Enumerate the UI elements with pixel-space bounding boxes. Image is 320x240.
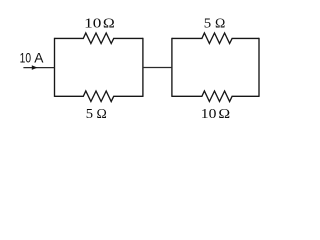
- svg-text:Ω: Ω: [103, 17, 115, 32]
- resistor R2 (5 ohm, bottom of left box): [55, 91, 143, 102]
- svg-text:Ω: Ω: [218, 107, 230, 122]
- svg-text:5: 5: [86, 107, 93, 122]
- resistor R4 (10 ohm, bottom of right box): [172, 91, 259, 102]
- arrowhead of current source: [32, 65, 38, 70]
- wire: right box left vertical: [171, 38, 173, 97]
- wire: left box right vertical: [142, 38, 144, 97]
- svg-text:Ω: Ω: [215, 17, 225, 32]
- resistor R3 (5 ohm, top of right box): [172, 33, 259, 44]
- wire: right box right vertical: [258, 38, 260, 97]
- svg-text:A: A: [34, 49, 44, 65]
- wire: input lead with current arrow: [23, 67, 54, 69]
- wire: left box left vertical: [54, 38, 56, 97]
- svg-text:10: 10: [84, 17, 101, 32]
- svg-text:10: 10: [20, 49, 32, 65]
- svg-text:10: 10: [201, 107, 217, 122]
- resistor R1 (10 ohm, top of left box) with top-side wire: [55, 33, 143, 44]
- wire: middle connector between the two parallel groups: [143, 67, 172, 69]
- svg-text:Ω: Ω: [96, 107, 106, 122]
- svg-text:5: 5: [204, 17, 211, 32]
